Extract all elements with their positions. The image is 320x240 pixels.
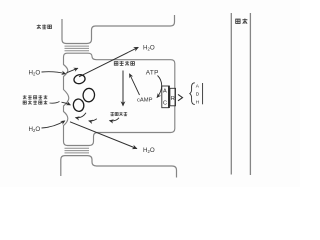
label 血液 (blood)	[236, 19, 248, 24]
vertical bar after ADH	[202, 83, 204, 104]
R box (receptor)	[170, 88, 176, 106]
label 小管液 (tubular fluid)	[37, 24, 52, 28]
label 含水通道的 / 小泡内移动 (vesicles containing water channels)	[23, 95, 47, 104]
long arrow from notch to H2O bottom-right	[70, 122, 137, 149]
capillary wall right	[249, 13, 251, 175]
svg-text:H2O: H2O	[29, 126, 41, 133]
upper cell outline (bottom boundary with step)	[62, 15, 175, 44]
svg-text:C: C	[163, 100, 167, 106]
svg-text:A: A	[163, 88, 167, 94]
svg-text:H2O: H2O	[29, 70, 41, 77]
svg-text:D: D	[196, 92, 200, 98]
arrow cAMP to 蛋白激酶	[130, 74, 140, 95]
long arrow from vesicle area to H2O top-right	[79, 47, 138, 77]
AC box (adenylate cyclase)	[162, 86, 169, 108]
divider (membrane through boxes)	[168, 86, 170, 108]
svg-text:H2O: H2O	[143, 44, 155, 51]
vesicle V2	[82, 88, 95, 103]
svg-text:H2O: H2O	[143, 147, 155, 154]
chevron > between R and ADH	[178, 94, 183, 100]
curved arrow below V3 (vesicle moving to membrane)	[76, 113, 87, 118]
short arrow from notch B to vesicle V3	[62, 102, 71, 105]
vesicle V3	[72, 98, 84, 112]
lower cell outline (top boundary with step)	[61, 156, 177, 178]
svg-text:ATP: ATP	[146, 69, 159, 76]
label 磷酸蛋白 (phosphoprotein)	[110, 112, 127, 116]
curved arrow from 磷酸蛋白 to left	[110, 118, 120, 121]
arrow ATP to cAMP (arc)	[157, 76, 162, 98]
capillary wall left	[230, 13, 232, 175]
leader line from label to membrane notch	[50, 102, 60, 104]
arrow H2O top-left into notch	[42, 72, 66, 74]
arrow H2O bottom-left into notch	[42, 121, 65, 128]
short arrow from notch to upper-right (water entering vesicle)	[67, 68, 78, 73]
label 蛋白激酶 (protein kinase)	[114, 61, 134, 65]
brace { before ADH	[190, 83, 195, 105]
svg-text:R: R	[171, 96, 175, 102]
tight junction lines top	[65, 46, 90, 51]
small arrow pointing left near (92,120)	[89, 119, 97, 121]
down arrow from 蛋白激酶 to 磷酸蛋白	[122, 71, 124, 106]
vesicle V1	[73, 74, 86, 85]
middle cell outline (left membrane with vesicle notches, stepped top/bottom, right membrane)	[64, 53, 175, 145]
svg-text:A: A	[196, 84, 200, 90]
svg-text:cAMP: cAMP	[137, 97, 153, 103]
svg-text:H: H	[196, 100, 200, 106]
tight junction lines bottom	[65, 148, 90, 153]
